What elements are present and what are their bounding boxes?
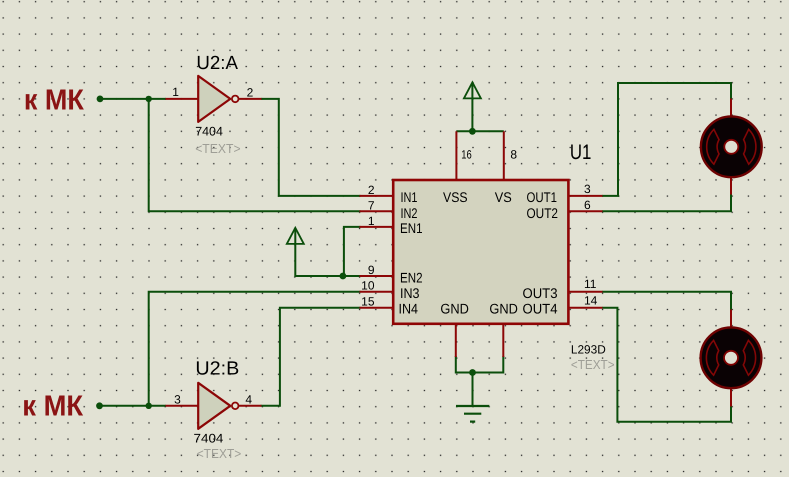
svg-text:11: 11 bbox=[584, 277, 597, 291]
IC U1 right pins bbox=[568, 196, 603, 308]
op-amp U2:B bubble bbox=[232, 403, 239, 410]
power symbol arrow left bbox=[287, 228, 304, 244]
svg-text:8: 8 bbox=[510, 148, 517, 162]
wire power arrow to EN2 bbox=[295, 229, 360, 276]
svg-text:7404: 7404 bbox=[195, 125, 223, 139]
svg-text:EN2: EN2 bbox=[400, 269, 423, 285]
svg-text:к МК: к МК bbox=[24, 84, 84, 116]
svg-text:IN2: IN2 bbox=[401, 205, 418, 221]
motor M2 shaft hole bbox=[724, 351, 738, 365]
wire to power arrow top bbox=[471, 83, 473, 131]
svg-text:U2:A: U2:A bbox=[196, 53, 238, 74]
svg-text:3: 3 bbox=[174, 392, 181, 406]
wire U2:A output to IN1 bbox=[261, 99, 361, 196]
svg-text:U1: U1 bbox=[570, 141, 592, 164]
svg-text:IN1: IN1 bbox=[401, 189, 418, 205]
svg-text:OUT4: OUT4 bbox=[523, 301, 558, 317]
motor M2 brushes bbox=[706, 340, 755, 375]
svg-text:EN1: EN1 bbox=[400, 220, 423, 236]
svg-text:OUT3: OUT3 bbox=[523, 285, 558, 301]
svg-text:16: 16 bbox=[461, 148, 472, 162]
motor M1 pins bbox=[730, 99, 732, 195]
svg-text:3: 3 bbox=[584, 182, 591, 196]
wire down to ground symbol bbox=[472, 373, 474, 406]
svg-text:1: 1 bbox=[368, 214, 375, 228]
svg-text:10: 10 bbox=[361, 279, 375, 293]
svg-text:VS: VS bbox=[495, 189, 512, 205]
motor M1 shaft hole bbox=[724, 140, 738, 154]
svg-text:OUT2: OUT2 bbox=[527, 205, 559, 221]
svg-text:9: 9 bbox=[368, 263, 375, 277]
motor M2 body bbox=[701, 327, 762, 388]
wire OUT4 to motor2 bottom bbox=[602, 308, 731, 422]
op-amp U2:B inverter pins bbox=[166, 405, 262, 407]
svg-text:IN4: IN4 bbox=[399, 301, 419, 317]
wire OUT2 to motor1 bottom bbox=[602, 179, 731, 211]
power symbol arrow top bbox=[464, 82, 481, 98]
svg-text:4: 4 bbox=[245, 392, 252, 406]
op-amp U2:A inverter pins bbox=[166, 98, 262, 100]
svg-text:<TEXT>: <TEXT> bbox=[195, 141, 240, 156]
op-amp U2:A bubble bbox=[232, 96, 239, 103]
motor M2 pins bbox=[730, 310, 732, 407]
wire U2:B output to IN4 bbox=[261, 308, 361, 406]
junction ground bbox=[469, 369, 476, 376]
IC U1 top pins VSS VS bbox=[456, 131, 503, 180]
svg-text:2: 2 bbox=[368, 183, 375, 197]
svg-text:к МК: к МК bbox=[22, 390, 83, 422]
svg-text:1: 1 bbox=[172, 85, 179, 99]
wire U2:B input from к МК bbox=[100, 405, 167, 407]
junction top power bbox=[469, 128, 476, 135]
svg-text:7404: 7404 bbox=[194, 432, 224, 446]
svg-text:<TEXT>: <TEXT> bbox=[571, 357, 615, 372]
wire EN1 to EN2 junction bbox=[344, 227, 361, 276]
wire GND pins to ground bbox=[456, 356, 504, 373]
svg-text:IN3: IN3 bbox=[400, 285, 420, 301]
wire OUT1 to motor1 top bbox=[602, 83, 731, 196]
wire OUT3 to motor2 top bbox=[602, 292, 731, 325]
motor M1 body bbox=[701, 116, 762, 177]
wire U2:A input from к МК bbox=[100, 98, 166, 100]
junction EN2 bbox=[340, 273, 347, 280]
node wire start dot top bbox=[97, 96, 104, 103]
svg-text:7: 7 bbox=[368, 198, 375, 212]
IC U1 left pins bbox=[360, 196, 394, 308]
junction top input bbox=[146, 96, 152, 102]
svg-text:15: 15 bbox=[361, 295, 375, 309]
svg-text:L293D: L293D bbox=[571, 343, 606, 357]
svg-text:<TEXT>: <TEXT> bbox=[197, 446, 242, 461]
IC U1 bottom pins GND GND bbox=[456, 324, 504, 358]
svg-text:GND: GND bbox=[489, 301, 518, 317]
svg-text:U2:B: U2:B bbox=[195, 359, 239, 380]
svg-text:14: 14 bbox=[584, 294, 598, 308]
svg-text:GND: GND bbox=[440, 301, 469, 317]
op-amp U2:B inverter triangle bbox=[198, 383, 230, 429]
svg-text:VSS: VSS bbox=[443, 189, 468, 205]
wire junction to IN2 bbox=[149, 99, 361, 211]
node wire start dot bottom bbox=[96, 402, 103, 409]
svg-text:6: 6 bbox=[584, 198, 591, 212]
wire junction to IN3 bbox=[149, 292, 361, 406]
IC U1 L293D body bbox=[393, 180, 568, 324]
svg-text:2: 2 bbox=[247, 85, 254, 99]
wire VSS-VS top power bbox=[456, 130, 503, 132]
ground symbol bbox=[456, 406, 489, 422]
svg-text:OUT1: OUT1 bbox=[527, 189, 558, 205]
junction bottom input bbox=[146, 403, 152, 409]
motor M1 brushes bbox=[707, 129, 756, 164]
op-amp U2:A inverter triangle bbox=[198, 76, 230, 122]
